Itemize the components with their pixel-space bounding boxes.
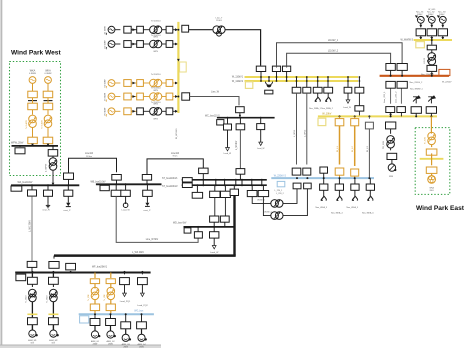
svg-text:WA_bus110kV: WA_bus110kV bbox=[18, 181, 33, 184]
busbar C labels bbox=[162, 178, 178, 188]
breaker F-M2 bbox=[49, 271, 59, 284]
breaker B2 bbox=[121, 183, 131, 203]
breaker A-route1 bbox=[64, 173, 74, 185]
svg-text:WM: WM bbox=[389, 176, 393, 178]
busbar Y2 labels bbox=[232, 76, 244, 83]
breaker ext2 bbox=[426, 102, 436, 118]
svg-text:Tr_6/20: Tr_6/20 bbox=[46, 295, 49, 303]
breaker F-W2 orange bbox=[106, 272, 115, 284]
generator g4 bbox=[106, 93, 120, 102]
wind turbine Neu_WKA_3 bbox=[316, 190, 328, 209]
svg-text:L_220_1: L_220_1 bbox=[275, 190, 284, 192]
machine G1 bbox=[91, 326, 100, 339]
breaker Y2 x286 above bbox=[283, 66, 291, 77]
transformer T_WPE bbox=[424, 132, 435, 144]
wire Y2-D feeder1 bbox=[294, 93, 297, 164]
breaker D above x323 bbox=[320, 167, 328, 178]
breaker GT low bbox=[427, 64, 437, 76]
svg-text:W2W_2: W2W_2 bbox=[264, 212, 272, 214]
machine G4 label bbox=[137, 343, 146, 348]
load arrow E bbox=[210, 238, 219, 254]
breaker G-G1 bbox=[90, 313, 100, 325]
wire Line route1 A to B bbox=[69, 153, 117, 173]
wire C to E right bbox=[224, 197, 226, 216]
svg-text:Load_W: Load_W bbox=[210, 252, 219, 254]
generator GT2 bbox=[426, 15, 435, 27]
generator g3 bbox=[106, 80, 120, 89]
busbar Y2 line2 bbox=[245, 80, 359, 82]
generator GT2 top label bbox=[428, 9, 436, 11]
breaker g3a bbox=[124, 80, 131, 87]
breaker R x402 above bbox=[397, 64, 407, 77]
svg-text:WKV: WKV bbox=[153, 118, 158, 120]
bus Y2 junction x306.8 bbox=[306, 76, 308, 82]
svg-text:Trf 20/110: Trf 20/110 bbox=[151, 73, 162, 76]
breaker WKA1 feeder bbox=[28, 137, 38, 144]
transformer TW1 orange bbox=[87, 284, 99, 304]
svg-text:W_L1: W_L1 bbox=[337, 146, 339, 152]
wire R-Y3 feeder1 bbox=[384, 88, 394, 116]
breaker F-W1 orange bbox=[90, 272, 99, 284]
machine M2 bbox=[49, 330, 59, 345]
machine G2 bbox=[107, 326, 116, 339]
svg-text:0.9MW: 0.9MW bbox=[45, 73, 53, 75]
svg-text:WF_bus20kV1: WF_bus20kV1 bbox=[92, 267, 108, 269]
breaker g5b bbox=[137, 108, 144, 115]
load machine B2 bbox=[122, 202, 131, 211]
breaker C below x252 bbox=[247, 185, 257, 196]
breaker Y3 x339 below bbox=[335, 115, 344, 125]
machine G2 label bbox=[106, 340, 115, 346]
transformer T_g5 bbox=[143, 101, 161, 120]
svg-text:Neu_WWW_1: Neu_WWW_1 bbox=[410, 88, 424, 90]
transformer TM1 bbox=[25, 284, 37, 303]
pale yellow box Y4 bbox=[416, 42, 425, 48]
generator g5 bbox=[106, 108, 120, 117]
breaker E-top2 bbox=[220, 216, 229, 227]
svg-text:Trf 20/110: Trf 20/110 bbox=[151, 86, 162, 89]
coupler box bus W left bbox=[217, 120, 224, 125]
breaker B3 bbox=[143, 183, 153, 203]
svg-text:2MW: 2MW bbox=[108, 343, 113, 345]
busbar Y1 vertical 110kV bbox=[176, 22, 179, 139]
load arrow W3 bbox=[257, 130, 265, 150]
busbar WPW 20kV bbox=[11, 143, 58, 146]
breaker g4b bbox=[137, 93, 144, 100]
busbar R bbox=[380, 75, 449, 77]
svg-text:WKV: WKV bbox=[153, 90, 158, 92]
coupler box bus B left bbox=[100, 185, 109, 190]
busbar F bbox=[15, 272, 150, 274]
svg-text:W_110kV1: W_110kV1 bbox=[232, 76, 244, 78]
SVC symbol A3 bbox=[64, 203, 71, 212]
breaker F-L2 bbox=[138, 271, 148, 285]
breaker W1 low orange bbox=[90, 304, 99, 314]
svg-text:Line_W 6kV: Line_W 6kV bbox=[146, 239, 159, 241]
transformer T_WM bbox=[383, 129, 395, 149]
bus C junction x242 bbox=[241, 179, 243, 186]
busbar A label bbox=[18, 181, 33, 184]
svg-text:tr_WPW: tr_WPW bbox=[45, 163, 48, 172]
breaker g3c bbox=[162, 80, 173, 87]
svg-text:L110kV_1: L110kV_1 bbox=[328, 40, 339, 42]
svg-text:Trf 20/110: Trf 20/110 bbox=[151, 20, 162, 23]
breaker g1a bbox=[124, 26, 131, 33]
generator g5 label bbox=[105, 108, 107, 116]
breaker g1d bbox=[177, 25, 188, 32]
svg-text:WD_bus 6kV: WD_bus 6kV bbox=[173, 222, 187, 224]
generator GT1 bbox=[415, 15, 424, 27]
bus C junction x261.8 bbox=[261, 179, 263, 186]
svg-text:Trf 20/110: Trf 20/110 bbox=[151, 101, 162, 104]
left window border bbox=[0, 0, 2, 348]
svg-text:Wind Park East: Wind Park East bbox=[416, 205, 465, 212]
svg-text:Load_W: Load_W bbox=[224, 153, 232, 155]
wind turbine WKA_2 bbox=[325, 93, 332, 102]
transformer TM2 bbox=[46, 284, 58, 303]
bus C junction x203.3 bbox=[202, 179, 204, 186]
wire TM2 down bbox=[52, 302, 54, 318]
Wind Park East boundary box bbox=[415, 128, 450, 195]
WPE wind generator bbox=[428, 173, 436, 183]
svg-text:L110kV_2: L110kV_2 bbox=[328, 51, 339, 53]
machine G3 label bbox=[122, 343, 131, 348]
wire WKA1 to WPW bus bbox=[31, 144, 34, 147]
ground neut_R bbox=[42, 203, 50, 211]
svg-text:Tr 0.4/20: Tr 0.4/20 bbox=[25, 120, 28, 129]
bus Y2 junction x348 bbox=[347, 76, 349, 82]
yellow tap M1 bbox=[27, 313, 37, 315]
breaker G-G2 bbox=[106, 313, 116, 325]
wind generator G_WKA1 label bbox=[29, 70, 37, 76]
svg-text:W_L3: W_L3 bbox=[367, 146, 369, 152]
breaker D below x323 bbox=[320, 177, 328, 190]
earthing arc Y2 bbox=[265, 82, 273, 94]
coupler box bus F left bbox=[16, 274, 26, 281]
breaker WKA1 upper bbox=[28, 91, 38, 98]
svg-text:30MV: 30MV bbox=[439, 14, 445, 16]
wire-arrow g3 bbox=[131, 82, 136, 85]
bus Y2 junction x286.6 bbox=[286, 76, 288, 82]
breaker ext1 bbox=[411, 102, 421, 118]
transformer T_g4 bbox=[143, 86, 161, 105]
SVC symbol B3 bbox=[144, 203, 151, 212]
load arrow Y2 x348 bbox=[343, 93, 351, 109]
breaker C-top1 bbox=[199, 168, 209, 180]
wind generator G_WKA1 bbox=[29, 77, 36, 92]
breaker bus-W top bbox=[236, 107, 245, 113]
load label L1 bbox=[120, 301, 131, 303]
breaker WKA2 upper bbox=[43, 91, 53, 98]
bus Y2 junction x276.5 bbox=[276, 76, 278, 82]
svg-text:Tr 0.4/20: Tr 0.4/20 bbox=[41, 120, 44, 129]
wire Y2-D feeder2 bbox=[304, 93, 307, 164]
busbar E bbox=[184, 226, 235, 228]
svg-text:Line_220_1: Line_220_1 bbox=[384, 91, 386, 103]
breaker Y2 x348 below bbox=[344, 81, 352, 93]
busbar D label bbox=[274, 175, 287, 177]
coupler box G left bbox=[80, 316, 89, 323]
coupler box C2 bbox=[182, 183, 192, 188]
bus Y2 junction x317.7 bbox=[317, 76, 319, 82]
Wind Park West title bbox=[11, 50, 61, 57]
wire g4 east to bus W bbox=[190, 92, 239, 106]
breaker g2a bbox=[124, 41, 131, 48]
busbar C line 1 bbox=[182, 179, 267, 181]
svg-text:Trf 20/110: Trf 20/110 bbox=[151, 34, 162, 37]
transformer T_g1 bbox=[143, 20, 161, 39]
svg-text:neut_P: neut_P bbox=[64, 209, 71, 212]
breaker GT1 bbox=[416, 29, 425, 40]
svg-text:Line_W: Line_W bbox=[211, 92, 220, 94]
svg-text:W_110kV2: W_110kV2 bbox=[232, 81, 244, 83]
transformer tr_WPW bbox=[45, 156, 57, 172]
generator GT3 label bbox=[438, 12, 446, 17]
bus Y2 junction x269 bbox=[268, 76, 270, 82]
generator g1 bbox=[106, 26, 120, 35]
pale yellow box Y2 bbox=[245, 82, 252, 89]
svg-text:W_10kV: W_10kV bbox=[322, 112, 331, 115]
bus C junction x235.8 bbox=[235, 179, 237, 186]
svg-text:W_220kV: W_220kV bbox=[442, 81, 452, 83]
busbar F label bbox=[92, 267, 108, 269]
breaker WM low bbox=[387, 148, 397, 160]
breaker g4d bbox=[177, 93, 189, 100]
wind turbine Neu_WKA_5 bbox=[347, 190, 359, 209]
svg-text:W_WW99 S: W_WW99 S bbox=[400, 40, 413, 42]
label Neu_220kV_2 bbox=[410, 82, 424, 84]
breaker WKA1 lower bbox=[28, 103, 38, 110]
breaker C below x236 bbox=[230, 185, 238, 195]
breaker Y3-WM bbox=[386, 115, 396, 128]
svg-text:110/30: 110/30 bbox=[424, 57, 426, 64]
svg-text:Tr_2W: Tr_2W bbox=[87, 294, 90, 301]
wire L_W vertical bbox=[236, 130, 241, 169]
busbar Y3 label bbox=[322, 112, 331, 115]
WPE breaker upper bbox=[426, 145, 437, 156]
wind turbine WKA_1 bbox=[314, 93, 321, 102]
breaker D-top f2 bbox=[303, 168, 311, 175]
svg-text:Neu_WKA_4: Neu_WKA_4 bbox=[331, 211, 343, 214]
svg-text:W2W_1: W2W_1 bbox=[257, 199, 265, 201]
breaker G-G4 bbox=[137, 313, 147, 329]
wire g3 to bus Y1 bbox=[173, 82, 179, 85]
breaker GT mid below bbox=[427, 39, 436, 50]
svg-text:Load_W: Load_W bbox=[122, 210, 131, 212]
external grid arrow ext2 bbox=[428, 95, 436, 101]
load label L2 bbox=[137, 305, 148, 307]
breaker A3 bbox=[64, 184, 73, 203]
breaker F-L1 bbox=[120, 271, 130, 285]
generator g4 label bbox=[105, 93, 107, 101]
wire-arrow g2 bbox=[131, 43, 136, 46]
svg-text:L_WV1: L_WV1 bbox=[294, 129, 296, 137]
breaker W2 bbox=[236, 117, 245, 130]
transformer W2W_2 bbox=[263, 186, 307, 220]
bus Y2 junction x359.4 bbox=[359, 76, 361, 82]
busbar R label bbox=[442, 81, 452, 83]
breaker g1b bbox=[137, 26, 144, 33]
transformer T_GT bbox=[424, 50, 436, 65]
breaker Y2 x317 below bbox=[313, 81, 322, 93]
bus C junction x251.8 bbox=[251, 179, 253, 186]
breaker WKA2 feeder bbox=[43, 137, 53, 144]
breaker g5c bbox=[162, 108, 173, 115]
generator g2 bbox=[106, 41, 120, 50]
breaker D-top orange1 bbox=[335, 168, 344, 178]
pale yellow box on Y1 bbox=[180, 62, 187, 72]
wire g4 to bus Y1 bbox=[173, 95, 179, 98]
breaker C-top2 bbox=[236, 169, 245, 180]
machine G1 label bbox=[91, 340, 100, 346]
breaker C below x263 bbox=[258, 185, 268, 196]
svg-text:WG_bus: WG_bus bbox=[134, 310, 144, 312]
breaker D below f1 bbox=[293, 177, 301, 189]
machine WM bbox=[388, 160, 396, 178]
busbar C line 2 bbox=[182, 184, 267, 186]
breaker Y2 x306 below bbox=[303, 81, 311, 93]
breaker B-route2 bbox=[142, 175, 151, 185]
breaker Y2 x261 above bbox=[256, 66, 265, 77]
svg-text:Line110: Line110 bbox=[85, 153, 94, 155]
transformer T_WKA1 bbox=[25, 110, 36, 138]
busbar W label bbox=[205, 115, 220, 117]
breaker F1 top bbox=[27, 261, 37, 272]
breaker C below x225 bbox=[221, 185, 231, 197]
busbar D blue bbox=[271, 177, 374, 179]
busbar E label bbox=[173, 222, 187, 224]
Wind Park West boundary box bbox=[10, 62, 61, 176]
breaker D-top f1 bbox=[292, 168, 301, 175]
svg-text:20kV: 20kV bbox=[429, 190, 434, 192]
breaker Y3 x369 below bbox=[365, 115, 373, 128]
pale yellow box Y3 bbox=[318, 118, 326, 125]
breaker R x390 above bbox=[386, 64, 395, 77]
busbar Y4 bbox=[414, 39, 452, 41]
busbar G blue bbox=[79, 313, 154, 315]
wire-arrow g4 bbox=[131, 95, 136, 98]
breaker M1 low bbox=[28, 318, 38, 330]
svg-text:30MV: 30MV bbox=[417, 14, 423, 16]
load arrow W1 bbox=[224, 130, 232, 155]
machine G4 bbox=[138, 329, 147, 342]
busbar Y5 WPE bbox=[420, 153, 444, 165]
breaker C below x215 bbox=[210, 185, 220, 197]
svg-text:Neu_WKA_1 Neu_WKA_2: Neu_WKA_1 Neu_WKA_2 bbox=[309, 107, 334, 110]
generator g1 label bbox=[105, 26, 107, 34]
breaker D below x339 bbox=[335, 178, 343, 190]
wire Y3-D orange1 bbox=[337, 126, 340, 165]
breaker A2 neutral bbox=[44, 184, 53, 203]
wire-arrow g5 bbox=[131, 110, 136, 113]
transformer T_g2 bbox=[143, 34, 161, 53]
wind generator G_WKA2 label bbox=[45, 70, 53, 76]
breaker M2 low bbox=[49, 318, 59, 330]
wire Line route2 B to C bbox=[147, 153, 203, 175]
label Neu_WWW bbox=[410, 88, 424, 90]
junction D orange1 bbox=[339, 177, 341, 179]
svg-text:Tr_6/20: Tr_6/20 bbox=[25, 295, 28, 303]
bus C junction x215.8 bbox=[215, 179, 217, 186]
wire-arrow g1 bbox=[131, 28, 136, 31]
thick feeder C down bbox=[233, 196, 235, 256]
svg-text:Neu_WKA_5: Neu_WKA_5 bbox=[347, 206, 359, 209]
svg-text:Wind Park West: Wind Park West bbox=[11, 50, 61, 57]
busbar B bbox=[96, 183, 162, 185]
pale blue box D bbox=[277, 181, 285, 186]
svg-text:2MW: 2MW bbox=[93, 343, 98, 345]
wind generator G_WKA2 bbox=[45, 77, 52, 92]
svg-text:L_WV2: L_WV2 bbox=[304, 129, 306, 137]
svg-text:neut_R: neut_R bbox=[42, 209, 49, 212]
breaker G-G3 bbox=[121, 313, 131, 329]
breaker GT2 bbox=[427, 29, 436, 40]
breaker WKA2 lower bbox=[43, 103, 53, 110]
wire Y3-D gray bbox=[367, 129, 369, 178]
svg-text:WKV: WKV bbox=[153, 51, 158, 53]
breaker W2 low orange bbox=[106, 304, 115, 314]
disconnector tick WKA1 bbox=[28, 98, 37, 104]
busbar Y2 line1 bbox=[245, 76, 359, 78]
svg-text:Load_W: Load_W bbox=[257, 148, 265, 150]
external grid arrow ext1 bbox=[413, 95, 421, 101]
breaker B1 bbox=[111, 183, 121, 196]
breaker D below x370 bbox=[366, 178, 374, 190]
yellow tap M2 bbox=[48, 313, 58, 315]
three-winding transformer Line_T bbox=[213, 18, 225, 37]
coupler box bus A left bbox=[11, 186, 22, 191]
wire Line route3 B down to E bbox=[116, 196, 198, 242]
generator g2 label bbox=[105, 40, 107, 48]
breaker W1 bbox=[224, 117, 232, 130]
breaker g2b bbox=[137, 41, 144, 48]
breaker Y3 x354 below bbox=[351, 115, 359, 125]
breaker R x402 below bbox=[397, 81, 407, 88]
breaker WPW trafo HV bbox=[48, 145, 58, 156]
machine M1 bbox=[28, 330, 38, 345]
wire C to E left bbox=[214, 197, 216, 216]
breaker H left bbox=[49, 256, 59, 269]
svg-text:ST_bus110kV2: ST_bus110kV2 bbox=[162, 186, 178, 188]
generator GT1 label bbox=[416, 12, 424, 17]
label Neu_220kV_1 bbox=[421, 74, 435, 76]
wire WKA2 to WPW bus bbox=[47, 144, 50, 147]
wire overhead line1 110kV bbox=[277, 40, 403, 67]
breaker Y2 x276 above bbox=[272, 66, 280, 77]
wire Y3-D orange2 bbox=[352, 126, 355, 166]
svg-text:L_W 9kV: L_W 9kV bbox=[236, 140, 238, 150]
orange box on R bbox=[439, 69, 450, 75]
svg-text:Load_PQ2: Load_PQ2 bbox=[137, 305, 148, 307]
svg-text:9 km: 9 km bbox=[173, 156, 178, 158]
svg-text:110kV: 110kV bbox=[216, 20, 222, 22]
load L2 bbox=[141, 285, 145, 297]
generator GT3 bbox=[437, 15, 446, 27]
wire overhead line2 110kV bbox=[287, 51, 391, 68]
busbar W bbox=[217, 117, 275, 119]
breaker F aux top bbox=[66, 263, 76, 273]
breaker g5a bbox=[124, 108, 131, 115]
busbar A bbox=[11, 184, 79, 186]
bus Y2 junction x261 bbox=[260, 76, 262, 82]
svg-text:WKV: WKV bbox=[153, 37, 158, 39]
labels below D bbox=[275, 190, 285, 195]
breaker g1c bbox=[162, 26, 173, 33]
svg-text:Neu_WKA_3: Neu_WKA_3 bbox=[316, 206, 328, 209]
svg-text:Line_220_2: Line_220_2 bbox=[395, 91, 397, 103]
busbar G label bbox=[134, 310, 144, 312]
generator g3 label bbox=[105, 79, 107, 87]
